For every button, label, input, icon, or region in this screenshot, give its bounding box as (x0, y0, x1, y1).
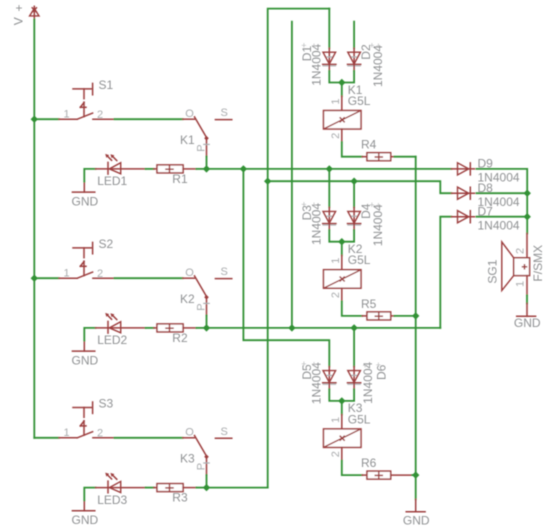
svg-text:R5: R5 (361, 297, 377, 311)
wire R4 to ground rail (395, 156, 416, 158)
label GND LED3 (72, 513, 99, 527)
junction D7 node (524, 213, 531, 220)
relay contact K3 (183, 436, 232, 476)
svg-text:G5L: G5L (348, 412, 371, 426)
wire S3 to relay contact K3 (115, 437, 183, 439)
wire D3 cathode to K2 node (329, 230, 342, 242)
value D1 (309, 43, 323, 85)
wire node3 to D6 anode (353, 328, 355, 367)
value D5 (309, 362, 323, 404)
diode D4 (347, 207, 361, 230)
ground GND speaker (517, 303, 536, 316)
svg-text:V: V (12, 17, 26, 25)
wire node to K3 coil pin 1 (341, 401, 343, 415)
svg-text:2: 2 (330, 133, 342, 139)
pin 1 label S3 (64, 427, 70, 439)
svg-text:1: 1 (330, 417, 342, 423)
wire D1 cathode to K1 node (329, 71, 342, 83)
svg-text:GND: GND (403, 513, 430, 527)
label S1 (99, 78, 114, 92)
svg-text:GND: GND (72, 513, 99, 527)
wire D2 cathode to K1 node (342, 71, 354, 83)
svg-text:O: O (185, 427, 194, 439)
value D6 (361, 361, 375, 403)
junction node3 branch D2 (288, 324, 295, 331)
wire D5 cathode to K3 node (329, 389, 342, 401)
wire D4 cathode to K2 node (342, 230, 354, 242)
diode D6 (347, 367, 361, 390)
wire rail to S2 pin 1 (34, 277, 59, 279)
relay coil K3 (324, 415, 362, 461)
svg-text:R6: R6 (361, 456, 377, 470)
relay coil K2 (324, 255, 362, 301)
value D9 (478, 171, 520, 185)
wire node4 to D1 anode bus (268, 9, 330, 488)
pin 2 label S1 (97, 109, 103, 121)
pin 1 label SG1 (514, 281, 526, 287)
svg-text:S: S (221, 107, 228, 119)
diode D3 (323, 207, 337, 230)
svg-text:P: P (195, 303, 207, 310)
wire LED2 to R2 (146, 327, 154, 329)
pin 1 label S2 (64, 267, 70, 279)
resistor R5 (362, 312, 394, 320)
wire R2 to node (196, 327, 206, 329)
svg-text:2: 2 (97, 428, 103, 440)
origin mark D6 (363, 360, 381, 371)
svg-text:1: 1 (330, 258, 342, 264)
label D4 (359, 203, 373, 219)
svg-text:R1: R1 (172, 172, 188, 186)
resistor R1 (154, 165, 197, 173)
pin 1 label S1 (64, 108, 70, 120)
wire bus to D2 (353, 22, 355, 49)
relay contact K2 (183, 276, 232, 316)
svg-text:2: 2 (97, 109, 103, 121)
label D6 (374, 364, 388, 380)
wire LED1 to R1 (146, 168, 154, 170)
wire K3 P to node (206, 475, 208, 488)
svg-text:1N4004: 1N4004 (478, 218, 520, 232)
wire node4 to D8 anode (268, 181, 452, 193)
diode D2 (347, 48, 361, 71)
label R1 (172, 172, 188, 186)
svg-text:2: 2 (97, 268, 103, 280)
pin 2 label S2 (97, 268, 103, 280)
svg-text:+: + (376, 360, 381, 370)
pin 2 label SG1 (514, 248, 526, 254)
value D2 (371, 45, 385, 87)
pin P label K2 (195, 303, 207, 310)
label R6 (361, 456, 377, 470)
resistor R4 (362, 153, 394, 161)
pin P label K3 (195, 463, 207, 470)
wire node3 run (207, 327, 441, 329)
value D4 (371, 204, 385, 246)
diode D1 (323, 48, 337, 71)
svg-text:K2: K2 (180, 292, 195, 306)
junction node3 branch D6 (350, 324, 357, 331)
ground GND coils (406, 499, 425, 511)
value K1 (348, 94, 371, 108)
origin mark D4 (369, 200, 381, 211)
wire LED3 to R3 (146, 487, 154, 489)
junction D8 node (524, 190, 531, 197)
junction rail-S2 (31, 275, 38, 282)
label GND coils (403, 513, 430, 527)
wire D9 cathode to speaker node (477, 169, 528, 193)
ground GND LED1 (72, 182, 94, 193)
svg-text:S2: S2 (99, 237, 114, 251)
wire bus to D1 (328, 9, 330, 49)
pin 1 label K1 coil (330, 98, 342, 104)
wire node1 to D5 anode (243, 169, 329, 367)
svg-text:2: 2 (330, 451, 342, 457)
pin 2 label K1 coil (330, 133, 342, 139)
resistor R2 (154, 324, 197, 332)
resistor R3 (154, 484, 197, 492)
svg-text:R2: R2 (172, 331, 188, 345)
wire GND to LED1 (84, 169, 95, 182)
LED LED1 (96, 154, 146, 174)
svg-text:S1: S1 (99, 78, 114, 92)
resistor R6 (362, 471, 412, 479)
svg-text:S3: S3 (99, 396, 114, 410)
svg-text:+: + (301, 200, 306, 210)
pin S label K1 (221, 107, 228, 119)
wire K2 P to node (206, 316, 208, 328)
junction K2 coil node (338, 238, 345, 245)
svg-text:2: 2 (514, 248, 526, 254)
diode D5 (323, 367, 337, 390)
wire S1 to relay contact K1 (115, 118, 183, 120)
power symbol V+ (30, 6, 39, 19)
label K2 (348, 242, 363, 256)
svg-text:+: + (376, 200, 381, 210)
wire K3 coil to R6 (342, 461, 362, 476)
label R2 (172, 331, 188, 345)
label GND speaker (514, 316, 541, 330)
label V+ (12, 1, 26, 25)
svg-text:1: 1 (330, 98, 342, 104)
label LED1 (97, 174, 127, 188)
svg-text:+: + (369, 200, 374, 210)
diode D9 (452, 163, 475, 175)
label K2 (180, 292, 195, 306)
junction R5 rail (412, 312, 419, 319)
svg-text:LED2: LED2 (97, 333, 127, 347)
svg-text:+: + (311, 359, 316, 369)
svg-text:GND: GND (514, 316, 541, 330)
svg-text:P: P (195, 463, 207, 470)
pin S label K3 (221, 426, 228, 438)
speaker SG1 (502, 234, 530, 296)
label D3 (300, 205, 314, 221)
junction node1 branch D3 (326, 165, 333, 172)
label K3 (180, 452, 195, 466)
svg-text:LED3: LED3 (97, 493, 127, 507)
wire R6 to ground rail (412, 474, 416, 476)
origin mark D1 (301, 40, 316, 51)
svg-text:+: + (301, 40, 306, 50)
wire node1 to D3 anode (328, 169, 330, 208)
switch S1 (59, 83, 115, 119)
wire D7 cathode to speaker node (477, 216, 528, 218)
label D5 (300, 364, 314, 380)
pin 2 label S3 (97, 428, 103, 440)
wire wire2 to D4 anode (353, 181, 355, 207)
svg-text:+: + (301, 359, 306, 369)
label D7 (478, 204, 494, 218)
junction node1 branch D5 (240, 165, 247, 172)
wire S2 to relay contact K2 (115, 277, 183, 279)
wire D8 cathode to speaker node (477, 192, 528, 194)
wire R1 to node (196, 168, 206, 170)
svg-text:G5L: G5L (348, 253, 371, 267)
ground GND LED3 (72, 500, 94, 511)
value D3 (309, 203, 323, 245)
label GND LED1 (72, 194, 99, 208)
junction node1 at K1 P (203, 165, 210, 172)
wire V+ rail (33, 19, 35, 437)
svg-text:P: P (195, 144, 207, 151)
wire node3 to D2 anode bus (291, 22, 293, 328)
svg-text:SG1: SG1 (485, 259, 499, 283)
label R4 (361, 138, 377, 152)
svg-text:R3: R3 (172, 491, 188, 505)
value K2 (348, 253, 371, 267)
pin 1 label K2 coil (330, 258, 342, 264)
wire GND to LED2 (84, 328, 95, 341)
svg-text:1: 1 (64, 427, 70, 439)
value D7 (478, 218, 520, 232)
value SG1 (531, 245, 545, 282)
svg-text:K1: K1 (180, 133, 195, 147)
wire D6 cathode to K3 node (342, 389, 354, 401)
label K1 (180, 133, 195, 147)
wire K1 coil to R4 (342, 142, 362, 157)
label R5 (361, 297, 377, 311)
svg-text:+: + (311, 200, 316, 210)
relay coil K1 (324, 96, 362, 142)
label LED2 (97, 333, 127, 347)
pin O label K2 (185, 267, 194, 279)
svg-text:2: 2 (330, 292, 342, 298)
svg-text:1: 1 (514, 281, 526, 287)
label LED3 (97, 493, 127, 507)
wire node to K1 coil pin 1 (341, 83, 343, 97)
origin mark D3 (301, 200, 316, 211)
svg-text:G5L: G5L (348, 94, 371, 108)
wire coil ground rail (415, 157, 417, 500)
svg-text:K3: K3 (180, 452, 195, 466)
label D2 (359, 44, 373, 60)
origin mark D2 (369, 41, 381, 52)
label D8 (478, 181, 494, 195)
junction node3 at K3 P (203, 484, 210, 491)
pin O label K3 (185, 427, 194, 439)
svg-text:GND: GND (72, 194, 99, 208)
label D1 (300, 46, 314, 62)
label S3 (99, 396, 114, 410)
value D8 (478, 195, 520, 209)
switch S2 (59, 242, 115, 278)
wire GND to LED3 (84, 488, 95, 501)
LED LED3 (96, 473, 146, 493)
pin 2 label K3 coil (330, 451, 342, 457)
svg-text:O: O (185, 267, 194, 279)
svg-text:F/SMX: F/SMX (531, 245, 545, 282)
svg-text:+: + (376, 41, 381, 51)
ground GND LED2 (72, 341, 94, 352)
label D9 (478, 157, 494, 171)
label K3 (348, 401, 363, 415)
label K1 (348, 83, 363, 97)
relay contact K1 (183, 117, 232, 157)
pin 2 label K2 coil (330, 292, 342, 298)
wire node3 to D7 anode (440, 217, 451, 328)
svg-text:+: + (16, 1, 23, 15)
junction node4 wire2 (264, 178, 271, 185)
wire node to K2 coil pin 1 (341, 242, 343, 256)
svg-text:+: + (363, 361, 368, 371)
junction K1 coil node (338, 79, 345, 86)
svg-text:R4: R4 (361, 138, 377, 152)
junction R6 rail (412, 471, 419, 478)
junction wire2 branch D4 (350, 178, 357, 185)
label R3 (172, 491, 188, 505)
wire K1 P to node (206, 157, 208, 169)
svg-text:S: S (221, 426, 228, 438)
svg-text:O: O (185, 108, 194, 120)
svg-text:+: + (311, 41, 316, 51)
wire node1 run (207, 168, 452, 170)
diode D7 (452, 211, 475, 223)
svg-text:1: 1 (64, 267, 70, 279)
label SG1 (485, 259, 499, 283)
svg-text:LED1: LED1 (97, 174, 127, 188)
wire node4 run (207, 487, 268, 489)
wire R5 to ground rail (395, 315, 416, 317)
switch S3 (59, 402, 115, 438)
junction K3 coil node (338, 397, 345, 404)
wire speaker node down (526, 193, 528, 233)
origin mark D5 (301, 359, 316, 370)
svg-text:GND: GND (72, 353, 99, 367)
LED LED2 (96, 313, 146, 333)
diode D8 (452, 187, 475, 199)
wire speaker to ground (526, 295, 528, 303)
pin 1 label K3 coil (330, 417, 342, 423)
wire rail to S3 pin 1 (34, 437, 59, 439)
svg-text:+: + (369, 41, 374, 51)
svg-text:S: S (221, 266, 228, 278)
value K3 (348, 412, 371, 426)
pin S label K2 (221, 266, 228, 278)
label GND LED2 (72, 353, 99, 367)
junction rail-S1 (31, 116, 38, 123)
wire R3 to node (196, 487, 206, 489)
wire rail to S1 pin 1 (34, 118, 59, 120)
svg-text:1: 1 (64, 108, 70, 120)
label S2 (99, 237, 114, 251)
junction node2 at K2 P (203, 324, 210, 331)
pin O label K1 (185, 108, 194, 120)
pin P label K1 (195, 144, 207, 151)
wire K2 coil to R5 (342, 301, 362, 316)
